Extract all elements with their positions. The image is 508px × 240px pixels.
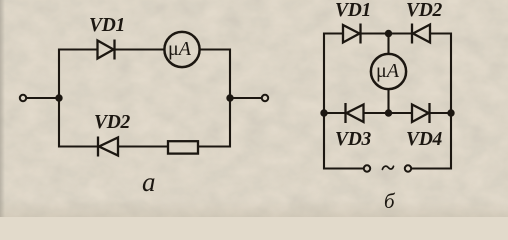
wire VD1 to top node	[361, 32, 389, 34]
label VD2 (circuit a)	[94, 112, 130, 134]
microammeter PA1	[164, 32, 199, 67]
wire left vertical of bridge	[323, 33, 325, 170]
caption b	[384, 189, 395, 214]
wire top left segment	[323, 32, 343, 34]
wire meter to bottom node	[387, 89, 389, 113]
meter text uA (bridge)	[376, 60, 399, 83]
wire VD2 to top right corner	[430, 32, 452, 34]
diode VD1	[98, 40, 115, 60]
node junction left	[55, 94, 62, 101]
wire bottom left	[58, 145, 98, 147]
input terminal left	[20, 95, 26, 101]
label VD1 (bridge)	[335, 0, 371, 22]
right node junction	[447, 109, 454, 116]
node junction right	[226, 94, 233, 101]
wire bottom node to VD4	[389, 112, 413, 114]
wire node to output terminal	[230, 97, 261, 99]
microammeter PA2	[371, 54, 406, 89]
wire meter to corner	[200, 48, 231, 50]
ac terminal right	[405, 165, 411, 171]
label VD4 (bridge)	[406, 129, 442, 151]
output terminal right	[262, 95, 268, 101]
wire bottom rail right	[412, 167, 452, 169]
wire right vertical	[229, 49, 231, 148]
wire top left	[58, 48, 98, 50]
bottom node junction	[385, 109, 392, 116]
wire terminal to node	[27, 97, 59, 99]
diode VD1 (bridge)	[343, 24, 361, 44]
diode VD2	[98, 137, 118, 157]
wire top node to VD2	[389, 32, 413, 34]
top node junction	[385, 30, 392, 37]
resistor R	[168, 141, 198, 153]
wire bottom rail left	[324, 167, 363, 169]
wire VD3 to bottom node	[364, 112, 389, 114]
wire bottom row left segment	[324, 112, 346, 114]
caption a	[142, 167, 156, 198]
diode VD2 (bridge)	[412, 24, 430, 44]
wire top node to meter	[387, 34, 389, 55]
label VD1 (circuit a)	[89, 15, 125, 37]
diode VD4 (bridge)	[412, 103, 430, 123]
label VD3 (bridge)	[335, 129, 371, 151]
wire right vertical of bridge	[450, 33, 452, 170]
wire VD4 to right node	[430, 112, 452, 114]
meter text uA (circuit a)	[168, 38, 191, 61]
wire resistor to corner	[198, 145, 231, 147]
wire VD1 to meter	[115, 48, 165, 50]
left node junction	[320, 109, 327, 116]
ac terminal left	[364, 165, 370, 171]
wire VD2 to resistor	[118, 145, 168, 147]
label VD2 (bridge)	[406, 0, 442, 22]
wire left vertical	[58, 49, 60, 148]
diode VD3 (bridge)	[346, 103, 364, 123]
